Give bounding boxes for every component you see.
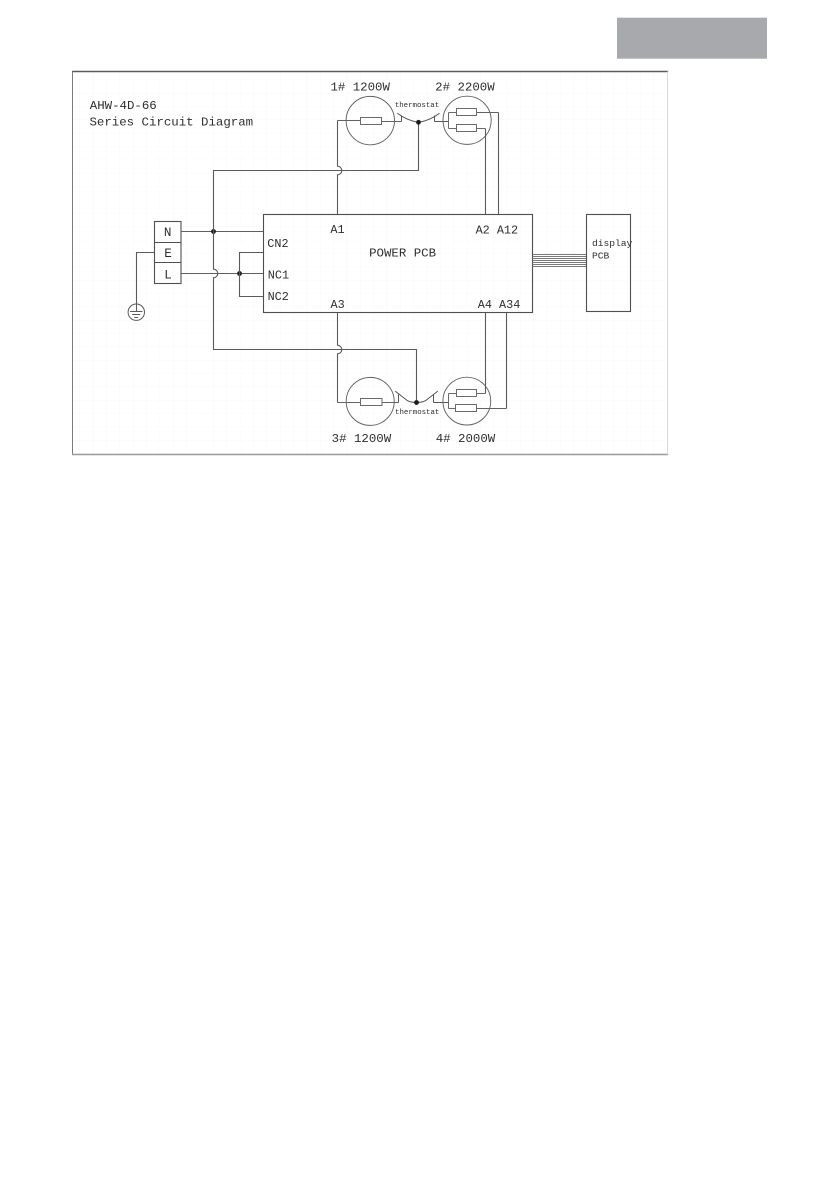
svg-text:PCB: PCB	[592, 251, 610, 262]
svg-text:L: L	[164, 268, 172, 282]
wire A3 dropper	[338, 313, 342, 403]
node N junction	[211, 229, 216, 234]
display PCB box	[587, 215, 631, 312]
ground	[128, 304, 144, 320]
wire A34 dropper	[506, 313, 508, 409]
header gray bar	[617, 18, 767, 59]
wire phase bus (thermostat1 to thermostat3 via left riser)	[214, 125, 419, 401]
title text	[90, 99, 254, 130]
heater 4# 2000W	[443, 377, 507, 425]
svg-text:3# 1200W: 3# 1200W	[332, 432, 392, 446]
schematic frame	[73, 72, 668, 454]
svg-text:NC1: NC1	[268, 269, 289, 283]
svg-text:AHW-4D-66: AHW-4D-66	[90, 99, 157, 113]
wire A4 dropper	[485, 313, 487, 394]
svg-text:POWER PCB: POWER PCB	[369, 247, 436, 261]
svg-text:N: N	[164, 226, 172, 240]
node thermostat 1	[416, 120, 421, 125]
svg-text:A4 A34: A4 A34	[478, 298, 520, 312]
wire A1 riser	[338, 121, 342, 215]
wire L to NC1	[181, 273, 264, 275]
heater 1# 1200W	[338, 96, 402, 144]
wire N to PCB	[181, 231, 264, 233]
label display PCB	[592, 238, 633, 262]
svg-text:CN2: CN2	[267, 237, 288, 251]
svg-text:2# 2200W: 2# 2200W	[435, 81, 495, 95]
thermostat (bottom)	[395, 391, 448, 402]
ribbon cable	[533, 255, 587, 267]
node thermostat 3	[414, 400, 419, 405]
node NC1 junction	[237, 271, 242, 276]
wire CN2/NC2 bracket	[240, 253, 264, 297]
POWER PCB box	[264, 215, 533, 313]
thermostat (top)	[397, 113, 448, 122]
wire A12 riser	[498, 113, 500, 215]
svg-text:1# 1200W: 1# 1200W	[330, 81, 390, 95]
heater 3# 1200W	[338, 377, 399, 425]
svg-text:thermostat: thermostat	[395, 409, 439, 417]
svg-text:A1: A1	[330, 223, 344, 237]
svg-text:E: E	[164, 247, 172, 261]
earth wire	[137, 253, 155, 305]
svg-text:thermostat: thermostat	[395, 102, 439, 110]
wire A2 riser	[485, 129, 487, 215]
svg-text:Series Circuit Diagram: Series Circuit Diagram	[90, 116, 254, 130]
svg-text:A3: A3	[331, 298, 345, 312]
svg-text:NC2: NC2	[268, 290, 289, 304]
svg-text:A2 A12: A2 A12	[476, 223, 518, 237]
heater 2# 2200W	[443, 96, 499, 144]
svg-text:display: display	[592, 238, 633, 249]
terminal labels	[164, 226, 172, 282]
terminal block N/E/L	[155, 222, 182, 284]
svg-text:4# 2000W: 4# 2000W	[436, 432, 496, 446]
